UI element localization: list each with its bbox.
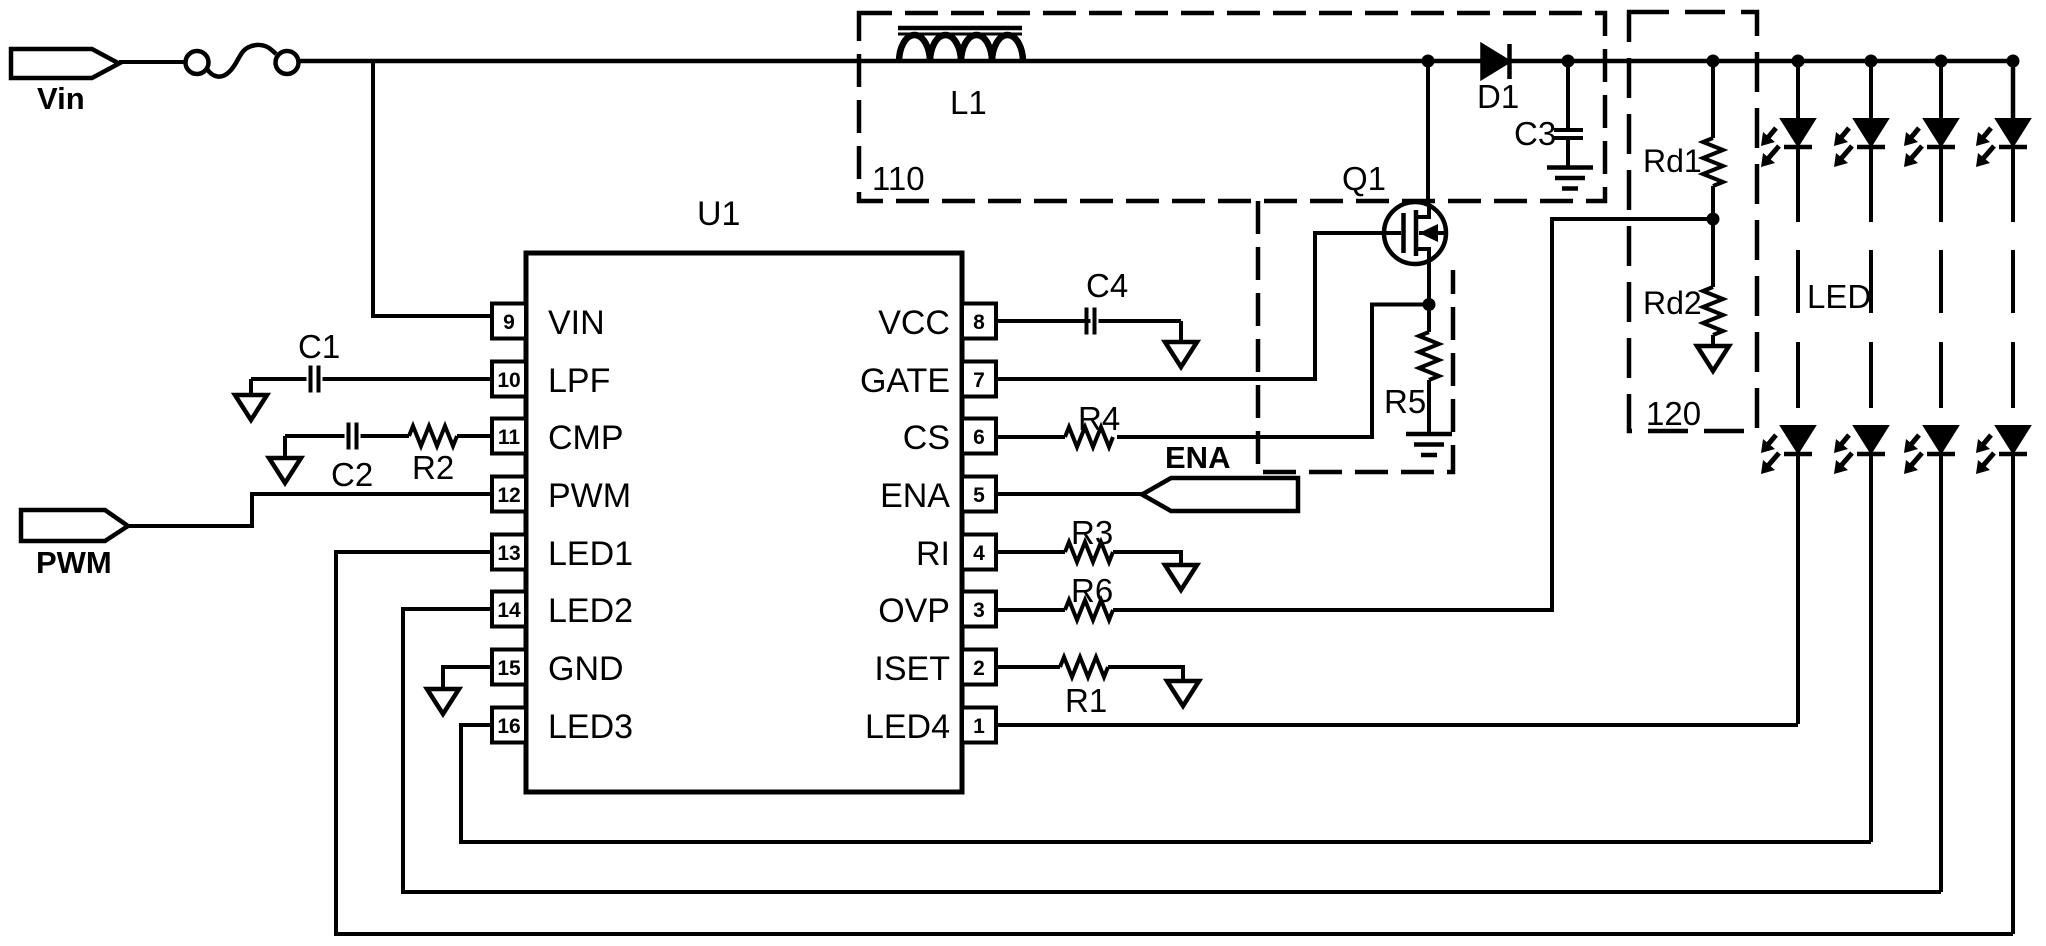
- input connector PWM: [21, 510, 128, 541]
- pin 16 LED3: [492, 708, 526, 743]
- IC U1 body: [526, 253, 962, 792]
- svg-text:R5: R5: [1384, 383, 1426, 420]
- dashed block around Q1/R5: [1258, 201, 1453, 472]
- resistor R5: [1427, 305, 1431, 333]
- resistor R4: [996, 435, 1065, 439]
- wire Vin to fuse: [119, 60, 186, 64]
- dashed block 120: [1629, 12, 1757, 431]
- pin 12 PWM: [492, 477, 526, 512]
- node Rd1 top: [1707, 55, 1720, 68]
- wire LED3 pin16 to string2: [461, 725, 1871, 842]
- resistor R6: [996, 608, 1065, 612]
- svg-text:ENA: ENA: [1165, 440, 1230, 475]
- pin 14 LED2: [492, 592, 526, 627]
- ground C1: [235, 395, 267, 420]
- pin 4 RI: [962, 535, 996, 570]
- capacitor C3: [1566, 61, 1570, 128]
- LED D4b: [1996, 426, 2030, 453]
- svg-text:13: 13: [497, 542, 520, 565]
- pin 13 LED1: [492, 535, 526, 570]
- svg-text:CMP: CMP: [548, 419, 624, 457]
- svg-text:GND: GND: [548, 650, 624, 688]
- resistor Rd1: [1711, 61, 1715, 138]
- fuse F1: [186, 51, 209, 74]
- wire LED string 3 bottom: [1939, 454, 1943, 892]
- ground C4: [1165, 342, 1197, 367]
- node LED string 2 top: [1869, 61, 1873, 119]
- svg-text:C1: C1: [298, 328, 340, 365]
- svg-text:10: 10: [497, 369, 520, 392]
- svg-text:RI: RI: [916, 535, 950, 573]
- svg-text:OVP: OVP: [878, 592, 950, 630]
- wire LED string 1 break: [1796, 147, 1800, 222]
- node at C3: [1562, 55, 1575, 68]
- wire main top rail / node corner to LED string 4: [298, 61, 2013, 119]
- svg-text:7: 7: [973, 369, 985, 392]
- wire OVP to Rd junction: [1113, 219, 1713, 610]
- svg-text:GATE: GATE: [860, 362, 950, 400]
- LED D3b: [1924, 426, 1958, 453]
- wire LED string 4 break: [2011, 147, 2015, 222]
- LED D4a: [1996, 119, 2030, 146]
- ground GND pin: [427, 689, 459, 714]
- node LED string 1 top: [1796, 61, 1800, 119]
- pin 8 VCC: [962, 304, 996, 339]
- pin 10 LPF: [492, 362, 526, 397]
- svg-text:1: 1: [973, 715, 985, 738]
- svg-text:2: 2: [973, 657, 985, 680]
- svg-text:VCC: VCC: [878, 304, 950, 342]
- pin 15 GND: [492, 650, 526, 685]
- transistor Q1 body: [1384, 202, 1446, 264]
- svg-text:12: 12: [497, 484, 520, 507]
- LED D2a: [1854, 119, 1888, 146]
- svg-text:5: 5: [973, 484, 985, 507]
- svg-text:R3: R3: [1071, 514, 1113, 551]
- diode D1: [1482, 45, 1509, 78]
- LED D2b: [1854, 426, 1888, 453]
- svg-text:R1: R1: [1065, 682, 1107, 719]
- svg-text:LED2: LED2: [548, 592, 633, 630]
- svg-text:VIN: VIN: [548, 304, 605, 342]
- ground C2: [269, 458, 301, 483]
- wire PWM net: [128, 494, 492, 526]
- wire LED string 2 bottom: [1869, 454, 1873, 842]
- wire LED2 pin14 to string3: [403, 609, 1941, 892]
- svg-text:110: 110: [872, 160, 925, 197]
- LED D3a: [1924, 119, 1958, 146]
- svg-text:L1: L1: [950, 84, 987, 121]
- resistor R3: [996, 550, 1065, 554]
- svg-text:PWM: PWM: [548, 477, 631, 515]
- ground Rd2: [1697, 346, 1729, 371]
- pin 7 GATE: [962, 362, 996, 397]
- svg-text:14: 14: [497, 599, 521, 622]
- svg-text:6: 6: [973, 426, 985, 449]
- input connector ENA: [1142, 478, 1298, 511]
- LED D1a: [1781, 119, 1815, 146]
- svg-text:11: 11: [498, 426, 521, 449]
- svg-text:120: 120: [1646, 395, 1701, 432]
- pin 9 VIN: [492, 304, 526, 339]
- wire CS sense: [1117, 305, 1429, 438]
- pin 6 CS: [962, 419, 996, 454]
- svg-text:8: 8: [973, 311, 985, 334]
- svg-text:C2: C2: [331, 456, 373, 493]
- resistor Rd2: [1711, 219, 1715, 287]
- input connector Vin: [11, 49, 119, 78]
- svg-text:Rd2: Rd2: [1643, 285, 1702, 321]
- svg-text:16: 16: [497, 715, 520, 738]
- resistor R2: [457, 434, 492, 438]
- wire Q1 source: [1427, 264, 1431, 306]
- wire GND pin: [443, 667, 492, 689]
- dashed block 110: [859, 13, 1605, 201]
- node Q1 source / R5 / CS: [1423, 298, 1436, 311]
- pin 3 OVP: [962, 592, 996, 627]
- svg-text:C3: C3: [1514, 115, 1556, 152]
- node at Q1 drain: [1422, 55, 1435, 68]
- wire VIN branch: [373, 61, 492, 316]
- svg-text:C4: C4: [1086, 267, 1128, 304]
- ground under R5: [1406, 432, 1452, 437]
- capacitor C2: [361, 434, 410, 438]
- node Rd1/Rd2: [1707, 213, 1720, 226]
- svg-text:CS: CS: [903, 419, 950, 457]
- ground R3: [1165, 565, 1197, 590]
- ground under C3: [1547, 165, 1593, 170]
- pin 5 ENA: [962, 477, 996, 512]
- wire LED string 1 bottom: [1796, 454, 1800, 724]
- ground R1: [1167, 681, 1199, 706]
- wire LED string 4 bottom: [2011, 454, 2015, 934]
- svg-text:LED1: LED1: [548, 535, 633, 573]
- wire LED1 pin13 to string4: [336, 552, 2013, 934]
- svg-text:Rd1: Rd1: [1643, 143, 1702, 179]
- wire ENA net: [996, 492, 1142, 496]
- pin 1 LED4: [962, 708, 996, 743]
- svg-text:LED4: LED4: [865, 708, 950, 746]
- svg-text:R2: R2: [412, 449, 454, 486]
- svg-text:LPF: LPF: [548, 362, 610, 400]
- wire LED4 pin1 to string1: [996, 723, 1798, 727]
- svg-text:LED3: LED3: [548, 708, 633, 746]
- pin 11 CMP: [492, 419, 526, 454]
- svg-text:D1: D1: [1477, 78, 1519, 115]
- pin 2 ISET: [962, 650, 996, 685]
- svg-text:PWM: PWM: [36, 545, 112, 580]
- svg-text:15: 15: [497, 657, 521, 680]
- capacitor C1 net: [323, 377, 493, 381]
- svg-text:U1: U1: [697, 195, 740, 233]
- LED D1b: [1781, 426, 1815, 453]
- svg-text:R6: R6: [1071, 572, 1113, 609]
- svg-text:ISET: ISET: [874, 650, 950, 688]
- svg-text:R4: R4: [1078, 400, 1120, 437]
- svg-text:9: 9: [503, 311, 515, 334]
- svg-text:LED: LED: [1807, 278, 1871, 315]
- transistor Q1 internals: [1401, 213, 1406, 253]
- wire gate routing: [996, 233, 1401, 379]
- wire LED string 3 break: [1939, 147, 1943, 222]
- node LED string 4 top: [2007, 55, 2020, 68]
- svg-text:Vin: Vin: [37, 81, 85, 116]
- wire drain Q1: [1426, 61, 1430, 210]
- svg-text:4: 4: [973, 542, 985, 565]
- resistor R1: [996, 665, 1060, 669]
- svg-text:3: 3: [973, 599, 985, 622]
- capacitor C4 net: [996, 319, 1091, 323]
- inductor L1: [898, 26, 1022, 31]
- wire LED string 2 break: [1869, 147, 1873, 222]
- node LED string 3 top: [1939, 61, 1943, 119]
- svg-text:ENA: ENA: [880, 477, 950, 515]
- svg-text:Q1: Q1: [1342, 160, 1386, 197]
